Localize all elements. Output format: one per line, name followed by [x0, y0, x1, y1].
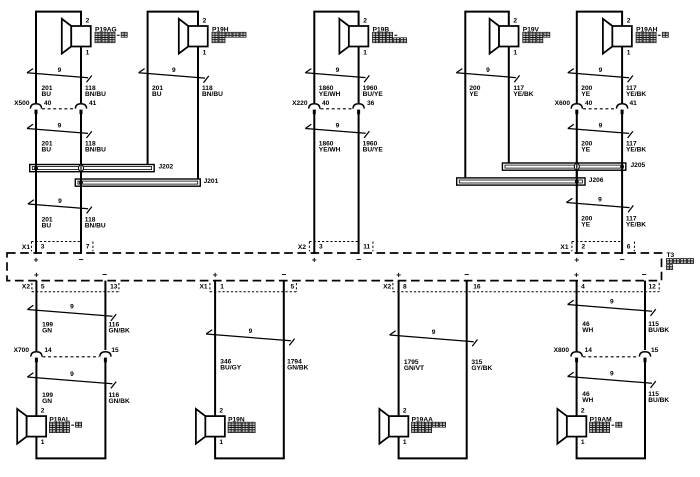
- connector X800 pin 14: [571, 352, 582, 362]
- svg-text:9: 9: [599, 123, 603, 130]
- svg-text:J201: J201: [204, 178, 219, 185]
- splice J202: [30, 165, 155, 172]
- svg-text:9: 9: [70, 371, 74, 378]
- speaker P19AM: [557, 409, 586, 444]
- label T3 audio amplifier: [667, 252, 694, 270]
- svg-text:GY/BK: GY/BK: [471, 365, 492, 372]
- wire label 116 GN/BK: [109, 322, 130, 335]
- amp connector X1 bottom box: [209, 283, 211, 292]
- svg-text:−: −: [620, 254, 625, 264]
- speaker P19H: [179, 19, 208, 54]
- wire label 199 GN: [42, 392, 53, 405]
- label P19H left front tweeter: [212, 26, 246, 42]
- svg-text:40: 40: [322, 100, 330, 107]
- svg-text:X700: X700: [14, 347, 30, 354]
- svg-text:BU: BU: [42, 147, 52, 154]
- svg-text:X2: X2: [22, 284, 30, 291]
- twisted pair: [27, 124, 92, 138]
- svg-text:GN: GN: [42, 328, 52, 335]
- amplifier T3 dashed box: [7, 253, 662, 281]
- wire label 115 BU/BK: [648, 391, 669, 404]
- label P19AH speaker right front door: [636, 26, 668, 42]
- svg-text:16: 16: [473, 284, 481, 291]
- wire label 117 YE/BK: [513, 85, 533, 98]
- svg-text:BN/BU: BN/BU: [85, 91, 106, 98]
- svg-text:9: 9: [610, 299, 614, 306]
- wire label 118 BN/BU: [202, 85, 223, 98]
- svg-text:BU: BU: [152, 91, 162, 98]
- svg-text:YE: YE: [581, 147, 590, 154]
- wire label 1795 GN/VT: [404, 359, 424, 372]
- speaker P19V: [490, 19, 519, 54]
- connector X500 pin 41: [75, 104, 86, 114]
- svg-text:1: 1: [220, 284, 224, 291]
- wire 117 YE/BK crossing J205: [621, 162, 623, 172]
- svg-text:X800: X800: [554, 347, 570, 354]
- svg-text:9: 9: [249, 328, 253, 335]
- wire amp to speaker P19AA: [398, 281, 400, 417]
- wire label 1960 BU/YE: [363, 141, 384, 154]
- svg-text:9: 9: [70, 304, 74, 311]
- amp connector X1 top right box: [571, 242, 573, 252]
- amp connector X1 top left box: [30, 242, 32, 252]
- svg-text:14: 14: [585, 347, 593, 354]
- junction J206 node: [575, 180, 579, 184]
- wire label 200 YE: [581, 141, 592, 154]
- wire label 201 BU: [42, 141, 53, 154]
- twisted pair: [305, 69, 369, 83]
- svg-text:3: 3: [41, 244, 45, 251]
- connector X800 link: [583, 356, 639, 358]
- wire label 116 GN/BK: [109, 392, 130, 405]
- svg-text:4: 4: [581, 284, 585, 291]
- connector X220 pin 40: [309, 104, 320, 114]
- svg-text:1: 1: [403, 439, 407, 446]
- svg-text:GN/VT: GN/VT: [404, 365, 424, 372]
- label P19V right front tweeter: [523, 26, 550, 42]
- label P19AG speaker left front door: [95, 26, 127, 42]
- wire: [80, 165, 82, 172]
- svg-text:1: 1: [513, 49, 517, 56]
- wire 201 BU to amp: [35, 114, 37, 254]
- wire P19AH pin1 down: [621, 47, 623, 104]
- twisted pair: [456, 69, 519, 83]
- svg-text:X1: X1: [200, 284, 208, 291]
- svg-text:2: 2: [86, 17, 90, 24]
- twisted pair: [566, 198, 633, 212]
- svg-text:40: 40: [585, 100, 593, 107]
- connector X600 pin 41: [617, 104, 628, 114]
- wire label 118 BN/BU: [85, 85, 106, 98]
- wire pass-through J205: [574, 163, 579, 171]
- svg-text:BU/BK: BU/BK: [648, 327, 669, 334]
- connector X500 link: [42, 108, 75, 110]
- wire label 201 BU: [42, 216, 53, 229]
- wire speaker P19V loop: [465, 12, 509, 178]
- svg-text:X500: X500: [14, 100, 30, 107]
- svg-text:2: 2: [41, 407, 45, 414]
- twisted pair: [206, 330, 295, 346]
- svg-text:+: +: [396, 269, 401, 279]
- wire label 117 YE/BK: [626, 85, 646, 98]
- speaker P19B: [339, 19, 368, 54]
- label P19AL speaker left rear door: [49, 416, 81, 432]
- connector X700 pin 15: [100, 352, 111, 362]
- wire amp to X800 pin 14: [576, 281, 578, 351]
- svg-text:X2: X2: [298, 244, 306, 251]
- wire label 46 WH: [582, 391, 593, 404]
- svg-text:−: −: [464, 269, 469, 279]
- wire label 117 YE/BK: [626, 215, 646, 228]
- twisted pair: [139, 69, 209, 83]
- wire amp to speaker P19N: [214, 281, 216, 417]
- wire label 46 WH: [582, 321, 593, 334]
- svg-text:BU/BK: BU/BK: [648, 397, 669, 404]
- amp connector X2 top middle box: [308, 242, 310, 252]
- wire 117 YE/BK to amp: [621, 114, 623, 254]
- svg-text:GN/BK: GN/BK: [287, 364, 308, 371]
- wire label 200 YE: [581, 85, 592, 98]
- svg-text:12: 12: [649, 284, 657, 291]
- svg-text:6: 6: [627, 244, 631, 251]
- amp connector X2 bottom left box: [31, 283, 33, 292]
- amp output polarity marks bottom row: [34, 269, 647, 279]
- connector X600 link: [583, 108, 616, 110]
- junction J205 node: [620, 165, 624, 169]
- wire 200 YE to amp: [576, 114, 578, 254]
- svg-text:41: 41: [630, 100, 638, 107]
- wire label 346 BU/GY: [220, 358, 241, 371]
- svg-text:3: 3: [319, 244, 323, 251]
- wire speaker P19AG loop top rail: [36, 12, 81, 103]
- svg-text:36: 36: [367, 100, 375, 107]
- connector X220 link: [321, 108, 353, 110]
- svg-text:J202: J202: [159, 164, 174, 171]
- svg-text:40: 40: [44, 100, 52, 107]
- svg-text:WH: WH: [582, 327, 593, 334]
- svg-text:YE: YE: [581, 91, 590, 98]
- svg-text:+: +: [213, 269, 218, 279]
- wire speaker P19AM return loop: [577, 362, 645, 458]
- wire X700 to speaker P19AL: [35, 362, 37, 416]
- svg-text:9: 9: [599, 67, 603, 74]
- svg-text:5: 5: [291, 284, 295, 291]
- twisted pair: [27, 69, 92, 83]
- connector X600 pin 40: [571, 104, 582, 114]
- svg-text:YE/BK: YE/BK: [626, 221, 646, 228]
- wire speaker P19N return loop: [215, 281, 284, 459]
- svg-text:YE/WH: YE/WH: [319, 147, 341, 154]
- wire label 118 BN/BU: [85, 141, 106, 154]
- wire P19V pin1 to J205: [508, 47, 510, 164]
- connector X220 pin 36: [353, 104, 364, 114]
- wire X700 pin15 to amp: [104, 281, 106, 350]
- svg-text:GN: GN: [42, 398, 52, 405]
- svg-text:2: 2: [581, 407, 585, 414]
- svg-text:1: 1: [627, 49, 631, 56]
- svg-text:2: 2: [203, 17, 207, 24]
- svg-text:BN/BU: BN/BU: [202, 91, 223, 98]
- svg-text:9: 9: [336, 67, 340, 74]
- splice J206: [457, 178, 585, 185]
- svg-text:+: +: [574, 254, 579, 264]
- svg-text:X600: X600: [555, 100, 571, 107]
- twisted pair: [27, 305, 116, 321]
- svg-text:1: 1: [86, 49, 90, 56]
- svg-text:+: +: [574, 269, 579, 279]
- twisted pair: [28, 200, 92, 214]
- svg-text:9: 9: [172, 67, 176, 74]
- wire label 201 BU: [42, 85, 53, 98]
- svg-text:2: 2: [363, 17, 367, 24]
- svg-text:BN/BU: BN/BU: [85, 147, 106, 154]
- connector X500 pin 40: [30, 104, 41, 114]
- label P19B speaker center dash: [373, 26, 407, 42]
- svg-text:9: 9: [58, 198, 62, 205]
- svg-text:1: 1: [581, 439, 585, 446]
- svg-text:+: +: [33, 254, 38, 264]
- svg-text:X1: X1: [560, 244, 568, 251]
- svg-text:WH: WH: [582, 397, 593, 404]
- wire 118 BN/BU crossing J202 J201: [80, 163, 82, 188]
- twisted pair: [27, 373, 116, 389]
- twisted pair: [568, 300, 656, 316]
- svg-text:J205: J205: [631, 162, 646, 169]
- svg-text:X2: X2: [383, 284, 391, 291]
- svg-text:7: 7: [86, 244, 90, 251]
- svg-text:−: −: [356, 254, 361, 264]
- wire label 199 GN: [42, 322, 53, 335]
- splice J205: [502, 163, 625, 170]
- svg-text:X220: X220: [292, 100, 308, 107]
- label P19AA right subwoofer: [412, 416, 446, 432]
- wire X800 to speaker P19AM: [576, 362, 578, 416]
- splice J201: [75, 179, 200, 186]
- wire X800 pin15 to amp: [644, 281, 646, 350]
- connector X700 pin 14: [31, 352, 42, 362]
- svg-text:2: 2: [219, 407, 223, 414]
- svg-text:YE: YE: [469, 91, 478, 98]
- svg-text:+: +: [34, 269, 39, 279]
- connector X800 pin 15: [639, 352, 650, 362]
- svg-text:9: 9: [58, 67, 62, 74]
- svg-text:YE/WH: YE/WH: [319, 91, 341, 98]
- svg-text:1: 1: [41, 439, 45, 446]
- wire label 1860 YE/WH: [319, 85, 341, 98]
- svg-text:YE/BK: YE/BK: [513, 91, 533, 98]
- svg-text:−: −: [281, 269, 286, 279]
- svg-text:+: +: [312, 254, 317, 264]
- amp output polarity marks top row: [33, 254, 624, 264]
- wire label 117 YE/BK: [626, 141, 646, 154]
- wire speaker P19B loop: [314, 12, 358, 103]
- label P19AM speaker right rear door: [590, 416, 622, 432]
- svg-text:2: 2: [403, 407, 407, 414]
- wire label 201 BU: [152, 85, 163, 98]
- svg-text:2: 2: [513, 17, 517, 24]
- wire P19H pin1 to J201: [197, 47, 199, 180]
- connector X700 link: [43, 356, 100, 358]
- svg-text:15: 15: [651, 347, 659, 354]
- svg-text:YE/BK: YE/BK: [626, 91, 646, 98]
- svg-text:−: −: [641, 269, 646, 279]
- wire 201 BU crossing J202: [35, 164, 37, 173]
- wire label 115 BU/BK: [648, 321, 669, 334]
- wire label 1960 BU/YE: [363, 85, 384, 98]
- twisted pair: [568, 124, 633, 138]
- wire 1860 YE/WH to amp: [313, 114, 315, 254]
- twisted pair: [390, 331, 478, 347]
- svg-text:11: 11: [363, 244, 370, 251]
- wire pass-through J202: [79, 164, 84, 172]
- svg-text:5: 5: [41, 284, 45, 291]
- label P19N left subwoofer: [228, 416, 255, 432]
- wire 1960 BU/YE to amp: [358, 114, 360, 254]
- svg-text:2: 2: [627, 17, 631, 24]
- wire: [576, 163, 578, 170]
- wire speaker P19H loop: [148, 12, 198, 165]
- junction J201 node: [79, 181, 83, 185]
- svg-text:GN/BK: GN/BK: [109, 328, 130, 335]
- wire label 200 YE: [469, 85, 480, 98]
- svg-text:1: 1: [363, 49, 367, 56]
- speaker P19N: [196, 409, 225, 444]
- svg-text:BU/YE: BU/YE: [363, 147, 384, 154]
- wire amp to X700 pin 14: [35, 281, 37, 351]
- svg-text:J206: J206: [589, 177, 604, 184]
- svg-text:BU: BU: [42, 91, 52, 98]
- twisted pair: [568, 372, 656, 388]
- svg-text:BU: BU: [42, 222, 52, 229]
- svg-text:−: −: [78, 254, 83, 264]
- wire label 118 BN/BU: [85, 216, 106, 229]
- svg-text:41: 41: [89, 100, 97, 107]
- svg-text:9: 9: [486, 67, 490, 74]
- svg-text:BU/YE: BU/YE: [363, 91, 384, 98]
- svg-text:T3: T3: [667, 252, 675, 259]
- svg-text:YE: YE: [581, 221, 590, 228]
- svg-text:1: 1: [203, 49, 207, 56]
- svg-text:X1: X1: [22, 244, 30, 251]
- svg-text:14: 14: [44, 347, 52, 354]
- amp connector X2 bottom right box: [392, 283, 394, 292]
- svg-text:GN/BK: GN/BK: [109, 398, 130, 405]
- svg-text:−: −: [102, 269, 107, 279]
- wire P19B pin1 down: [358, 47, 360, 104]
- svg-text:9: 9: [610, 371, 614, 378]
- svg-text:BU/GY: BU/GY: [220, 364, 241, 371]
- twisted pair: [305, 124, 369, 138]
- svg-text:YE/BK: YE/BK: [626, 147, 646, 154]
- svg-text:BN/BU: BN/BU: [85, 222, 106, 229]
- svg-text:13: 13: [110, 284, 118, 291]
- wire speaker P19AA return loop: [399, 281, 467, 459]
- twisted pair: [568, 69, 633, 83]
- speaker P19AG: [62, 19, 91, 54]
- wire label 1794 GN/BK: [287, 358, 308, 371]
- speaker P19AL: [17, 409, 46, 444]
- svg-text:2: 2: [582, 244, 586, 251]
- svg-text:1: 1: [219, 439, 223, 446]
- wire 118 BN/BU to amp: [80, 114, 82, 254]
- speaker P19AH: [603, 19, 632, 54]
- speaker P19AA: [379, 409, 408, 444]
- wire label 1860 YE/WH: [319, 141, 341, 154]
- wire speaker P19AL return loop: [36, 362, 105, 458]
- wire 200 YE crossing J205 J206: [576, 162, 578, 187]
- svg-text:9: 9: [58, 123, 62, 130]
- svg-text:9: 9: [598, 197, 602, 204]
- svg-text:15: 15: [111, 347, 119, 354]
- svg-text:9: 9: [432, 329, 436, 336]
- svg-text:8: 8: [403, 284, 407, 291]
- wire label 200 YE: [581, 215, 592, 228]
- wire label 315 GY/BK: [471, 359, 492, 372]
- junction J202 node: [34, 166, 38, 170]
- svg-text:9: 9: [336, 123, 340, 130]
- wire P19AG pin1 down: [80, 47, 82, 104]
- wire speaker P19AH loop: [577, 12, 622, 103]
